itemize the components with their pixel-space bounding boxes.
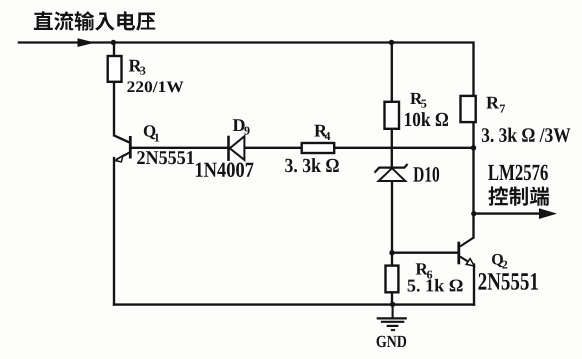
wire: bottom ground rail: [114, 303, 474, 305]
label: Q1 designator: [144, 125, 156, 139]
node: rail/R5 tap: [389, 40, 394, 45]
label: R3 designator: [129, 60, 142, 72]
wire: R4 to R7 node: [334, 147, 473, 149]
resistor R4 body: [302, 143, 335, 153]
wire: LM2576 control output line: [474, 212, 541, 214]
wire: R3 top lead: [113, 43, 115, 57]
arrowhead: DC input direction: [78, 38, 96, 47]
transistor Q1 emitter stroke: [116, 152, 130, 160]
resistor R5 body: [385, 102, 400, 129]
wire: node to Q2 base: [392, 252, 458, 254]
label: LM2576: [488, 165, 548, 180]
label: R6 designator: [416, 263, 428, 274]
label: R5 value 10k ohm: [405, 112, 448, 126]
wire: R3 bottom lead to Q1 collector: [113, 82, 115, 136]
wire: Q2 emitter down to rail: [473, 265, 475, 305]
transistor Q1 emitter arrowhead: [115, 156, 123, 162]
wire: R7 bottom lead to Q2 collector: [472, 122, 474, 237]
label: R6 value 5.1k ohm: [408, 279, 463, 292]
ground stub: [392, 304, 394, 317]
label: Q2 designator: [492, 254, 503, 267]
wire: R6 bottom lead: [391, 292, 393, 304]
resistor R6 body: [386, 266, 399, 293]
ground bar 3: [387, 325, 399, 327]
diode D9 cathode bar: [227, 136, 230, 161]
node: D10/R6/Q2-base junction: [389, 250, 394, 255]
label: R7 value 3.3k ohm /3W: [482, 128, 570, 143]
label: R4 value 3.3k ohm: [285, 158, 339, 172]
label: D9 part 1N4007: [196, 163, 254, 178]
wire: top supply rail with corner down to R7: [19, 43, 474, 96]
zener D10 cathode bar with bent ends: [375, 164, 408, 173]
label: D9 designator: [233, 119, 245, 131]
label: R4 designator: [314, 125, 327, 137]
ground bar 2: [381, 321, 404, 323]
node: input/R3 tap: [111, 40, 116, 45]
wire: R5 top lead: [391, 43, 393, 102]
wire: Q1 emitter down left side: [113, 158, 115, 305]
resistor R3 body: [108, 56, 122, 82]
transistor Q1 base bar: [129, 136, 132, 159]
label: R3 value 220/1W: [127, 81, 183, 92]
node: control output tap: [471, 211, 476, 216]
ground bar 1: [377, 317, 407, 319]
ground bar 4: [391, 329, 395, 331]
transistor Q2 emitter stroke: [460, 257, 474, 266]
wire: D10 anode down to R6: [391, 181, 393, 266]
transistor Q2 base bar: [457, 242, 460, 265]
resistor R7 body: [461, 96, 476, 122]
node: R4/R7 junction: [471, 145, 476, 150]
label: Q1 part 2N5551: [137, 151, 194, 164]
label: D10 designator: [413, 167, 439, 182]
arrowhead: LM2576 control output: [539, 208, 557, 219]
label: GND: [377, 336, 407, 348]
label: title 直流输入电压 (DC input voltage): [34, 11, 53, 30]
wire: Q1 base to D9: [131, 147, 227, 149]
transistor Q2 emitter arrowhead: [466, 259, 474, 266]
node: ground rail tap: [390, 302, 395, 307]
zener D10 anode triangle: [379, 168, 406, 181]
wire: D9 to R4: [246, 147, 302, 149]
label: R5 designator: [410, 93, 422, 104]
transistor Q1 collector stroke: [114, 135, 130, 142]
transistor Q2 collector stroke: [460, 238, 474, 247]
diode D9 triangle: [230, 136, 245, 160]
label: R7 designator: [486, 97, 499, 109]
wire: R5 bottom lead to D10 cathode: [391, 129, 393, 167]
label: 控制端 (control terminal): [488, 186, 507, 206]
label: Q2 part 2N5551: [478, 273, 538, 290]
